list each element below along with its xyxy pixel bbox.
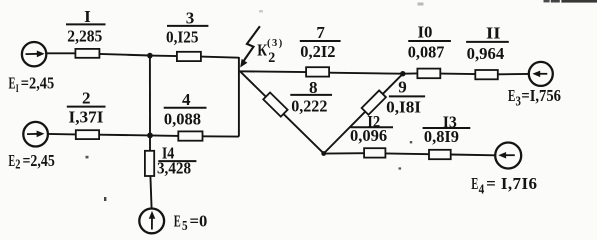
wire vertical corner through K2 point down to wire-4 corner	[238, 57, 240, 137]
svg-text:3,428: 3,428	[157, 158, 191, 177]
svg-text:2,285: 2,285	[67, 26, 102, 45]
svg-text:I: I	[16, 83, 19, 95]
fraction bar R14	[158, 160, 196, 162]
svg-text:0,087: 0,087	[408, 42, 445, 61]
svg-text:=2,45: =2,45	[23, 151, 55, 170]
wire R13 to E4	[450, 154, 495, 157]
svg-text:3: 3	[516, 94, 521, 109]
svg-text:0,096: 0,096	[350, 126, 387, 145]
svg-text:0,I8I: 0,I8I	[386, 98, 421, 117]
resistor R3	[177, 52, 201, 61]
wire node B down to R14	[149, 135, 151, 151]
svg-text:2: 2	[268, 50, 275, 66]
node C junction dot	[400, 71, 405, 76]
wire node A to R3	[150, 55, 177, 58]
svg-text:4: 4	[479, 182, 485, 197]
wire node A to node B vertical	[149, 56, 151, 136]
svg-text:= I,7I6: = I,7I6	[486, 174, 537, 193]
svg-text:0,2I2: 0,2I2	[300, 42, 335, 61]
resistor R10	[417, 69, 440, 79]
wire E1 to R1	[46, 52, 76, 54]
wire node B to R2	[99, 134, 150, 137]
scan speck below node	[104, 197, 106, 201]
source E2	[23, 122, 48, 147]
wire diagonal node D through R9 to node C	[324, 74, 403, 154]
scan speck below wire 12	[399, 167, 402, 169]
scan speck top	[418, 3, 424, 6]
scan speck near E2 label	[86, 156, 89, 159]
resistor R12	[364, 148, 385, 157]
node D junction dot	[321, 151, 326, 156]
svg-text:I,37I: I,37I	[69, 108, 104, 127]
wire R4 to node B	[150, 134, 179, 137]
source E4	[495, 143, 521, 169]
fraction bar R2	[67, 106, 106, 108]
resistor R1	[75, 49, 99, 58]
svg-text:4: 4	[182, 90, 191, 109]
resistor R2	[76, 130, 99, 139]
wire node C to R10	[403, 72, 418, 74]
svg-text:2: 2	[82, 89, 91, 108]
svg-text:0,8I9: 0,8I9	[424, 127, 459, 146]
source E5	[139, 209, 164, 234]
wire R3 to corner	[201, 57, 239, 58]
wire R10 to R11	[440, 73, 476, 76]
svg-text:9: 9	[398, 78, 407, 97]
svg-text:=0: =0	[190, 211, 208, 230]
wire R2 to E2	[48, 133, 76, 136]
resistor R14	[145, 151, 154, 176]
wire R11 to E3	[498, 73, 530, 75]
wire diagonal K2 through R8 to node D	[240, 72, 323, 154]
resistor R11	[475, 70, 498, 79]
wire node D to R12	[324, 152, 365, 154]
svg-text:2: 2	[15, 158, 20, 173]
svg-text:I: I	[84, 7, 91, 26]
wire R14 to E5	[150, 176, 151, 209]
wire corner to R4	[202, 135, 239, 137]
svg-text:0,222: 0,222	[291, 96, 327, 115]
fraction bar R1	[66, 23, 106, 25]
fraction bar R3	[167, 25, 208, 27]
resistor R7	[306, 67, 329, 76]
fraction bar R10	[408, 40, 451, 42]
scan smudge above bolt	[259, 10, 263, 13]
fraction bar R4	[164, 107, 207, 109]
svg-text:0,964: 0,964	[467, 44, 505, 63]
fraction bar R12	[351, 126, 394, 128]
fraction bar R8	[290, 94, 332, 96]
wire K2 to R7	[239, 70, 307, 73]
resistor R13	[429, 150, 451, 159]
svg-text:(3): (3)	[267, 38, 283, 49]
node B junction dot	[147, 133, 153, 139]
svg-text:=I,756: =I,756	[521, 86, 561, 105]
svg-text:E: E	[508, 86, 515, 105]
fraction bar R9	[389, 95, 425, 97]
scan artifact bar top right	[544, 0, 550, 2]
svg-text:0,088: 0,088	[164, 110, 201, 129]
svg-text:5: 5	[182, 219, 188, 234]
fraction bar R7	[300, 40, 341, 42]
node A junction dot	[147, 53, 153, 59]
wire R1 to node A	[99, 54, 150, 56]
resistor R9 diagonal	[362, 90, 386, 114]
wire R12 to R13	[385, 152, 430, 155]
short-circuit bolt K2(3)	[240, 26, 260, 67]
resistor R4	[178, 131, 202, 140]
svg-text:К: К	[257, 41, 267, 60]
svg-text:I0: I0	[418, 23, 433, 42]
scan speck right of 0,096	[410, 141, 412, 143]
source E1	[22, 42, 46, 66]
resistor R8 diagonal	[263, 92, 287, 116]
svg-text:3: 3	[186, 8, 195, 27]
fraction bar R13	[423, 127, 471, 129]
wire R7 to node C	[329, 73, 403, 74]
svg-text:E: E	[174, 211, 181, 230]
source E3	[529, 62, 553, 86]
svg-text:E: E	[9, 73, 16, 92]
svg-text:=2,45: =2,45	[21, 73, 54, 92]
fraction bar R11	[466, 41, 509, 43]
svg-text:II: II	[486, 23, 501, 42]
svg-text:0,I25: 0,I25	[166, 27, 199, 46]
svg-text:7: 7	[316, 23, 325, 42]
svg-text:E: E	[9, 151, 16, 170]
svg-text:E: E	[471, 174, 478, 193]
